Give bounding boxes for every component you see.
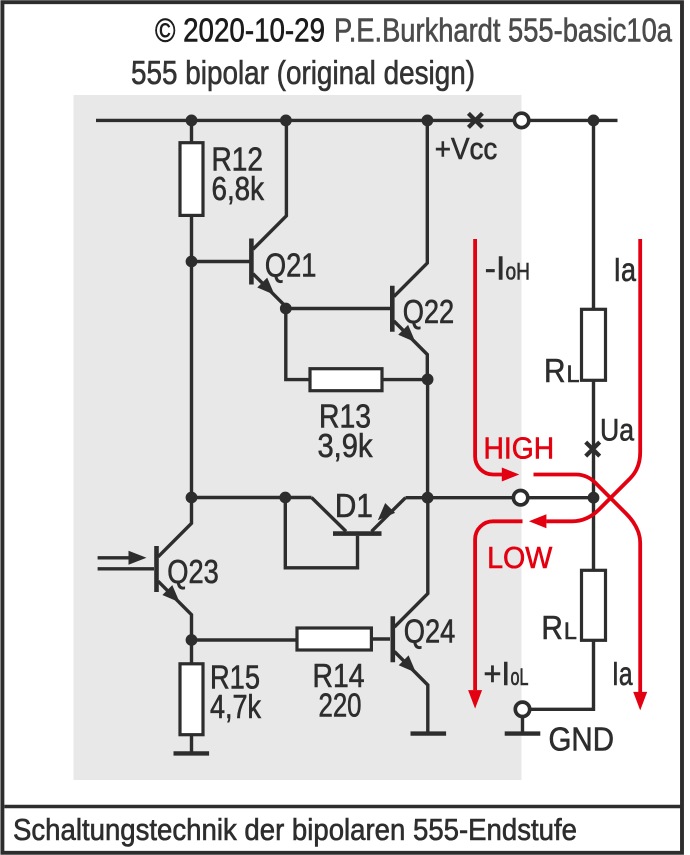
junction dot 5 <box>186 256 198 268</box>
resistor R14 <box>297 628 371 650</box>
wire lower RL to GND terminal <box>523 640 594 709</box>
wire Q21 base <box>192 260 251 263</box>
transistor Q24 <box>393 498 456 734</box>
red path -IoH to HIGH arrow <box>475 239 502 475</box>
caption separator line <box>4 805 682 809</box>
svg-text:Ua: Ua <box>600 411 634 447</box>
ground R15 <box>174 751 210 755</box>
svg-text:-I: -I <box>485 250 506 287</box>
wire left rail R12 bottom to D1 node <box>190 216 193 498</box>
D1 arrowhead <box>378 503 395 520</box>
svg-text:Q23: Q23 <box>167 553 219 590</box>
terminal GND <box>515 702 529 716</box>
resistor R15 <box>180 664 203 735</box>
svg-text:+Vcc: +Vcc <box>435 131 498 166</box>
junction dot 4 <box>588 115 600 127</box>
svg-text:LOW: LOW <box>487 540 553 575</box>
svg-text:3,9k: 3,9k <box>318 427 373 464</box>
wire D1 emitter to output node to terminal <box>406 496 522 499</box>
transistor Q22 <box>392 120 454 379</box>
ground Q24 emitter <box>411 731 447 735</box>
junction dot 8 <box>186 492 198 504</box>
svg-text:© 2020-10-29: © 2020-10-29 <box>155 12 325 49</box>
red path HIGH continue to lower Ia <box>534 475 641 693</box>
wire Q23 emitter junction to R14 <box>192 638 298 641</box>
svg-text:Ia: Ia <box>612 655 633 692</box>
wire R14 to Q24 base <box>371 637 390 640</box>
wire R15 bottom to ground <box>190 735 193 754</box>
svg-text:oL: oL <box>511 664 529 691</box>
svg-text:Schaltungstechnik der bipolare: Schaltungstechnik der bipolaren 555-Ends… <box>13 813 577 847</box>
D1 collector diagonal <box>312 498 347 532</box>
junction dot 11 <box>588 492 600 504</box>
svg-text:R: R <box>541 609 563 646</box>
input signal arrow line <box>98 556 130 559</box>
red +IoL arrowhead <box>468 690 482 709</box>
svg-text:4,7k: 4,7k <box>210 688 261 725</box>
svg-text:oH: oH <box>506 259 531 286</box>
wire Q21 emitter to Q22 base <box>286 307 390 310</box>
input signal arrowhead <box>129 551 147 565</box>
junction dot 3 <box>422 115 434 127</box>
svg-text:555 bipolar (original design): 555 bipolar (original design) <box>131 54 475 91</box>
resistor R12 <box>180 143 203 216</box>
junction dot 7 <box>422 374 434 386</box>
ground GND <box>505 731 541 735</box>
wire R15 junction down <box>190 640 193 664</box>
wire GND terminal stub <box>521 717 524 734</box>
svg-text:L: L <box>564 618 577 645</box>
wire D1 row left <box>192 496 312 499</box>
svg-text:Ia: Ia <box>614 251 637 288</box>
wire +Vcc top rail <box>96 119 618 122</box>
x-mark Vcc tap <box>468 113 482 127</box>
junction dot 1 <box>186 115 198 127</box>
junction dot 12 <box>186 634 198 646</box>
junction dot 6 <box>280 303 292 315</box>
wire output terminal to right rail <box>521 496 594 499</box>
red path upper Ia to LOW arrow <box>546 239 640 521</box>
wire Q21 emitter down to R13 left <box>286 309 310 380</box>
gray circuit background panel <box>74 95 522 780</box>
svg-text:Q22: Q22 <box>403 293 455 330</box>
svg-text:6,8k: 6,8k <box>212 170 265 207</box>
wire R12 top stub <box>190 120 193 143</box>
svg-text:P.E.Burkhardt 555-basic10a: P.E.Burkhardt 555-basic10a <box>334 12 673 49</box>
resistor RL upper <box>582 309 606 380</box>
resistor RL lower <box>582 570 606 640</box>
resistor R13 <box>310 369 382 391</box>
svg-text:D1: D1 <box>335 487 373 524</box>
wire right rail RL to lower RL <box>592 380 595 571</box>
junction dot 9 <box>279 492 291 504</box>
transistor Q21 <box>251 120 316 308</box>
D1 base loop <box>285 498 357 568</box>
input base wire <box>98 567 154 570</box>
D1 bar <box>333 531 382 536</box>
terminal output <box>513 491 527 505</box>
red LOW arrowhead <box>529 514 547 528</box>
transistor Q23 <box>157 498 219 641</box>
x-mark Ua tap <box>586 442 600 456</box>
svg-text:HIGH: HIGH <box>484 431 555 466</box>
svg-text:R: R <box>544 352 566 389</box>
junction dot 10 <box>422 492 434 504</box>
svg-text:Q21: Q21 <box>265 247 317 284</box>
wire right rail upper <box>592 120 595 309</box>
D1 emitter diagonal <box>372 498 406 532</box>
svg-text:L: L <box>567 361 580 388</box>
svg-text:Q24: Q24 <box>404 613 456 650</box>
terminal +Vcc <box>514 113 528 127</box>
red HIGH arrowhead <box>502 468 520 482</box>
junction dot 2 <box>280 115 292 127</box>
wire R13 right to Q22 emitter node <box>382 378 428 381</box>
red lower Ia arrowhead <box>633 692 647 711</box>
svg-text:220: 220 <box>319 687 362 724</box>
wire Q22 emitter node down to output node <box>426 379 429 497</box>
svg-text:+I: +I <box>484 655 511 692</box>
red path LOW continue to +IoL arrow <box>475 521 522 690</box>
svg-text:GND: GND <box>549 721 615 758</box>
